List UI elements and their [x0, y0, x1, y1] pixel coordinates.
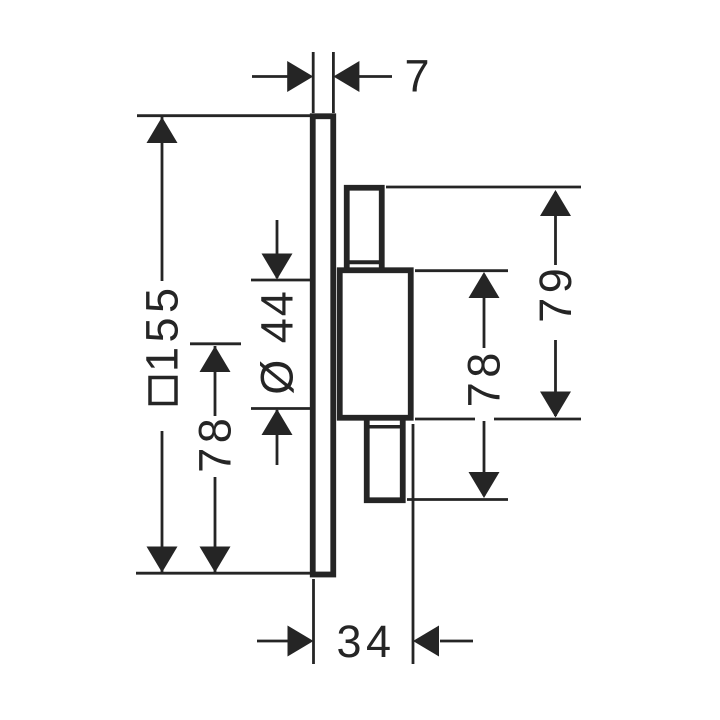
svg-text:34: 34 [336, 616, 395, 667]
svg-text:Ø 44: Ø 44 [252, 289, 303, 395]
svg-text:79: 79 [530, 264, 581, 323]
svg-text:155: 155 [137, 283, 188, 372]
svg-text:7: 7 [404, 51, 434, 102]
svg-text:78: 78 [459, 348, 510, 407]
svg-text:78: 78 [190, 414, 241, 473]
